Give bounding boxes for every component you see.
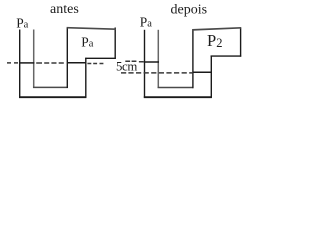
right diagram: box bottom (right part) <box>211 55 242 57</box>
right diagram: box top <box>192 28 241 30</box>
left diagram: box right wall <box>114 28 116 59</box>
right diagram: upper dashed reference line <box>125 60 143 63</box>
right diagram: outer left wall <box>144 30 146 98</box>
left diagram: liquid level in left tube <box>19 62 34 64</box>
left diagram: dashed reference line (left of tube) <box>7 62 18 64</box>
left diagram: box top <box>67 28 116 30</box>
right diagram: center wall (box left + inner right arm wall) <box>192 29 194 88</box>
left diagram: outer bottom <box>19 96 86 98</box>
right diagram: lower liquid level in right arm <box>193 71 212 73</box>
left diagram: box bottom (right part) <box>85 57 116 59</box>
left diagram: dashed reference line (right of box) <box>87 63 103 65</box>
svg-text:P2: P2 <box>207 31 222 50</box>
right diagram: box right wall <box>240 28 242 56</box>
left diagram: inner left wall <box>33 30 35 89</box>
svg-text:Pa: Pa <box>140 15 152 30</box>
left diagram: outer left wall <box>19 30 21 98</box>
right diagram: inner bottom <box>158 87 194 89</box>
right diagram: lower dashed reference line <box>121 72 193 74</box>
svg-text:depois: depois <box>171 3 208 18</box>
left diagram: dashed reference line (between tube and box) <box>36 62 64 64</box>
right diagram: outer right wall <box>210 56 212 98</box>
right diagram: inner left wall <box>157 30 159 88</box>
right diagram: outer bottom <box>144 96 212 98</box>
svg-text:Pa: Pa <box>16 15 28 30</box>
svg-text:antes: antes <box>50 2 79 17</box>
left diagram: center wall (box left + inner right arm wall) <box>66 28 68 88</box>
left diagram: outer right wall <box>85 58 87 98</box>
svg-text:Pa: Pa <box>81 34 93 49</box>
left diagram: inner bottom <box>33 86 68 88</box>
right diagram: upper liquid level in left tube <box>144 61 159 63</box>
left diagram: liquid level under box <box>67 62 86 64</box>
